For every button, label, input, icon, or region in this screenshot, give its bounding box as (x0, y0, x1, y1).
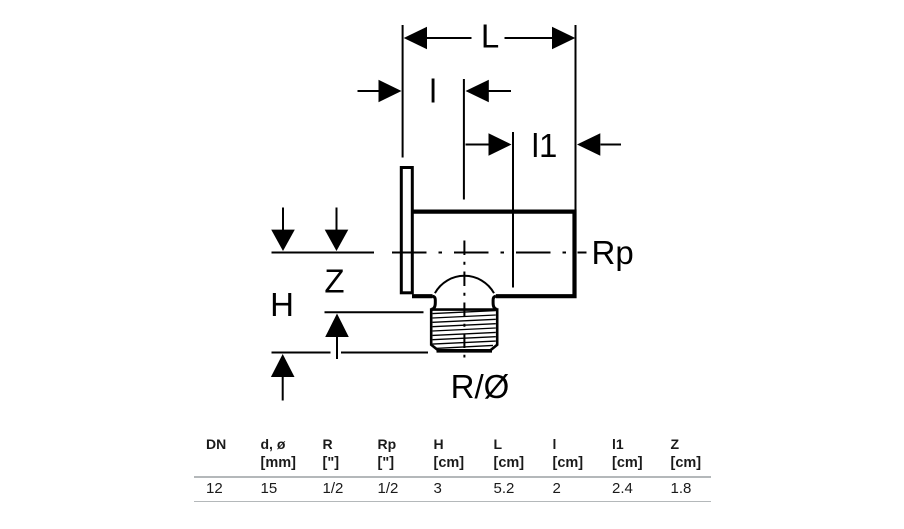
H down-arrow tail (282, 208, 284, 231)
dimension l tail right (489, 90, 512, 92)
svg-text:Z: Z (324, 263, 344, 300)
Z down-arrow tail (336, 208, 338, 231)
H up-arrow tail (282, 376, 284, 401)
arrowhead H down (271, 230, 295, 251)
table header units row (261, 457, 296, 470)
svg-text:l1: l1 (532, 127, 558, 164)
arrowhead Z up (325, 314, 349, 338)
arrowhead l1 right (pointing left) (577, 133, 600, 155)
dimension l1 tail left (466, 144, 490, 146)
svg-text:Rp: Rp (592, 234, 634, 271)
table header row: DN, d ø, R, Rp, H, L, l, l1, Z (206, 438, 226, 451)
svg-text:L: L (481, 18, 499, 55)
centerline stub right of body (578, 252, 587, 254)
dimension l1 tail right (601, 144, 622, 146)
svg-text:R/Ø: R/Ø (451, 368, 510, 405)
table data row: 12, 15, 1/2, 1/2, 3, 5.2, 2, 2.4, 1.8 (206, 481, 223, 496)
table rule bottom (194, 501, 711, 502)
threaded outlet outline (431, 310, 497, 351)
horizontal centerline (Rp axis) (392, 252, 574, 254)
svg-text:H: H (270, 286, 294, 323)
dimension L extension line left (402, 25, 404, 158)
thread bottom edge (thick) (437, 349, 493, 353)
H bottom reference line left part (272, 352, 331, 354)
H bottom reference line right part (341, 352, 428, 354)
wall flange plate (401, 168, 412, 293)
dome arc inside body (435, 276, 494, 293)
arrowhead l right (pointing left) (466, 80, 489, 102)
Z/H top reference line (centerline level) (272, 252, 375, 254)
arrowhead L right (552, 27, 575, 49)
dimension l tail left (358, 90, 381, 92)
dimension l1 extension line (512, 132, 514, 288)
dimension L line right segment (505, 37, 553, 39)
svg-text:l: l (429, 73, 436, 110)
vertical centerline of outlet (463, 241, 465, 358)
Z bottom reference line (325, 311, 424, 313)
arrowhead l left (pointing right) (379, 80, 402, 102)
thread hatching (433, 311, 496, 349)
dimension L line left segment (426, 37, 472, 39)
table rule top (194, 476, 711, 477)
dimension L extension line right (575, 25, 577, 211)
arrowhead Z down (325, 230, 349, 251)
arrowhead L left (404, 27, 427, 49)
dimension l extension line (center of outlet) (463, 79, 465, 200)
fitting body outline (412, 212, 575, 297)
neck left (431, 296, 435, 309)
Z up-arrow tail (336, 337, 338, 360)
neck right (493, 296, 497, 309)
arrowhead H up (271, 354, 295, 377)
arrowhead l1 left (pointing right) (489, 133, 512, 155)
